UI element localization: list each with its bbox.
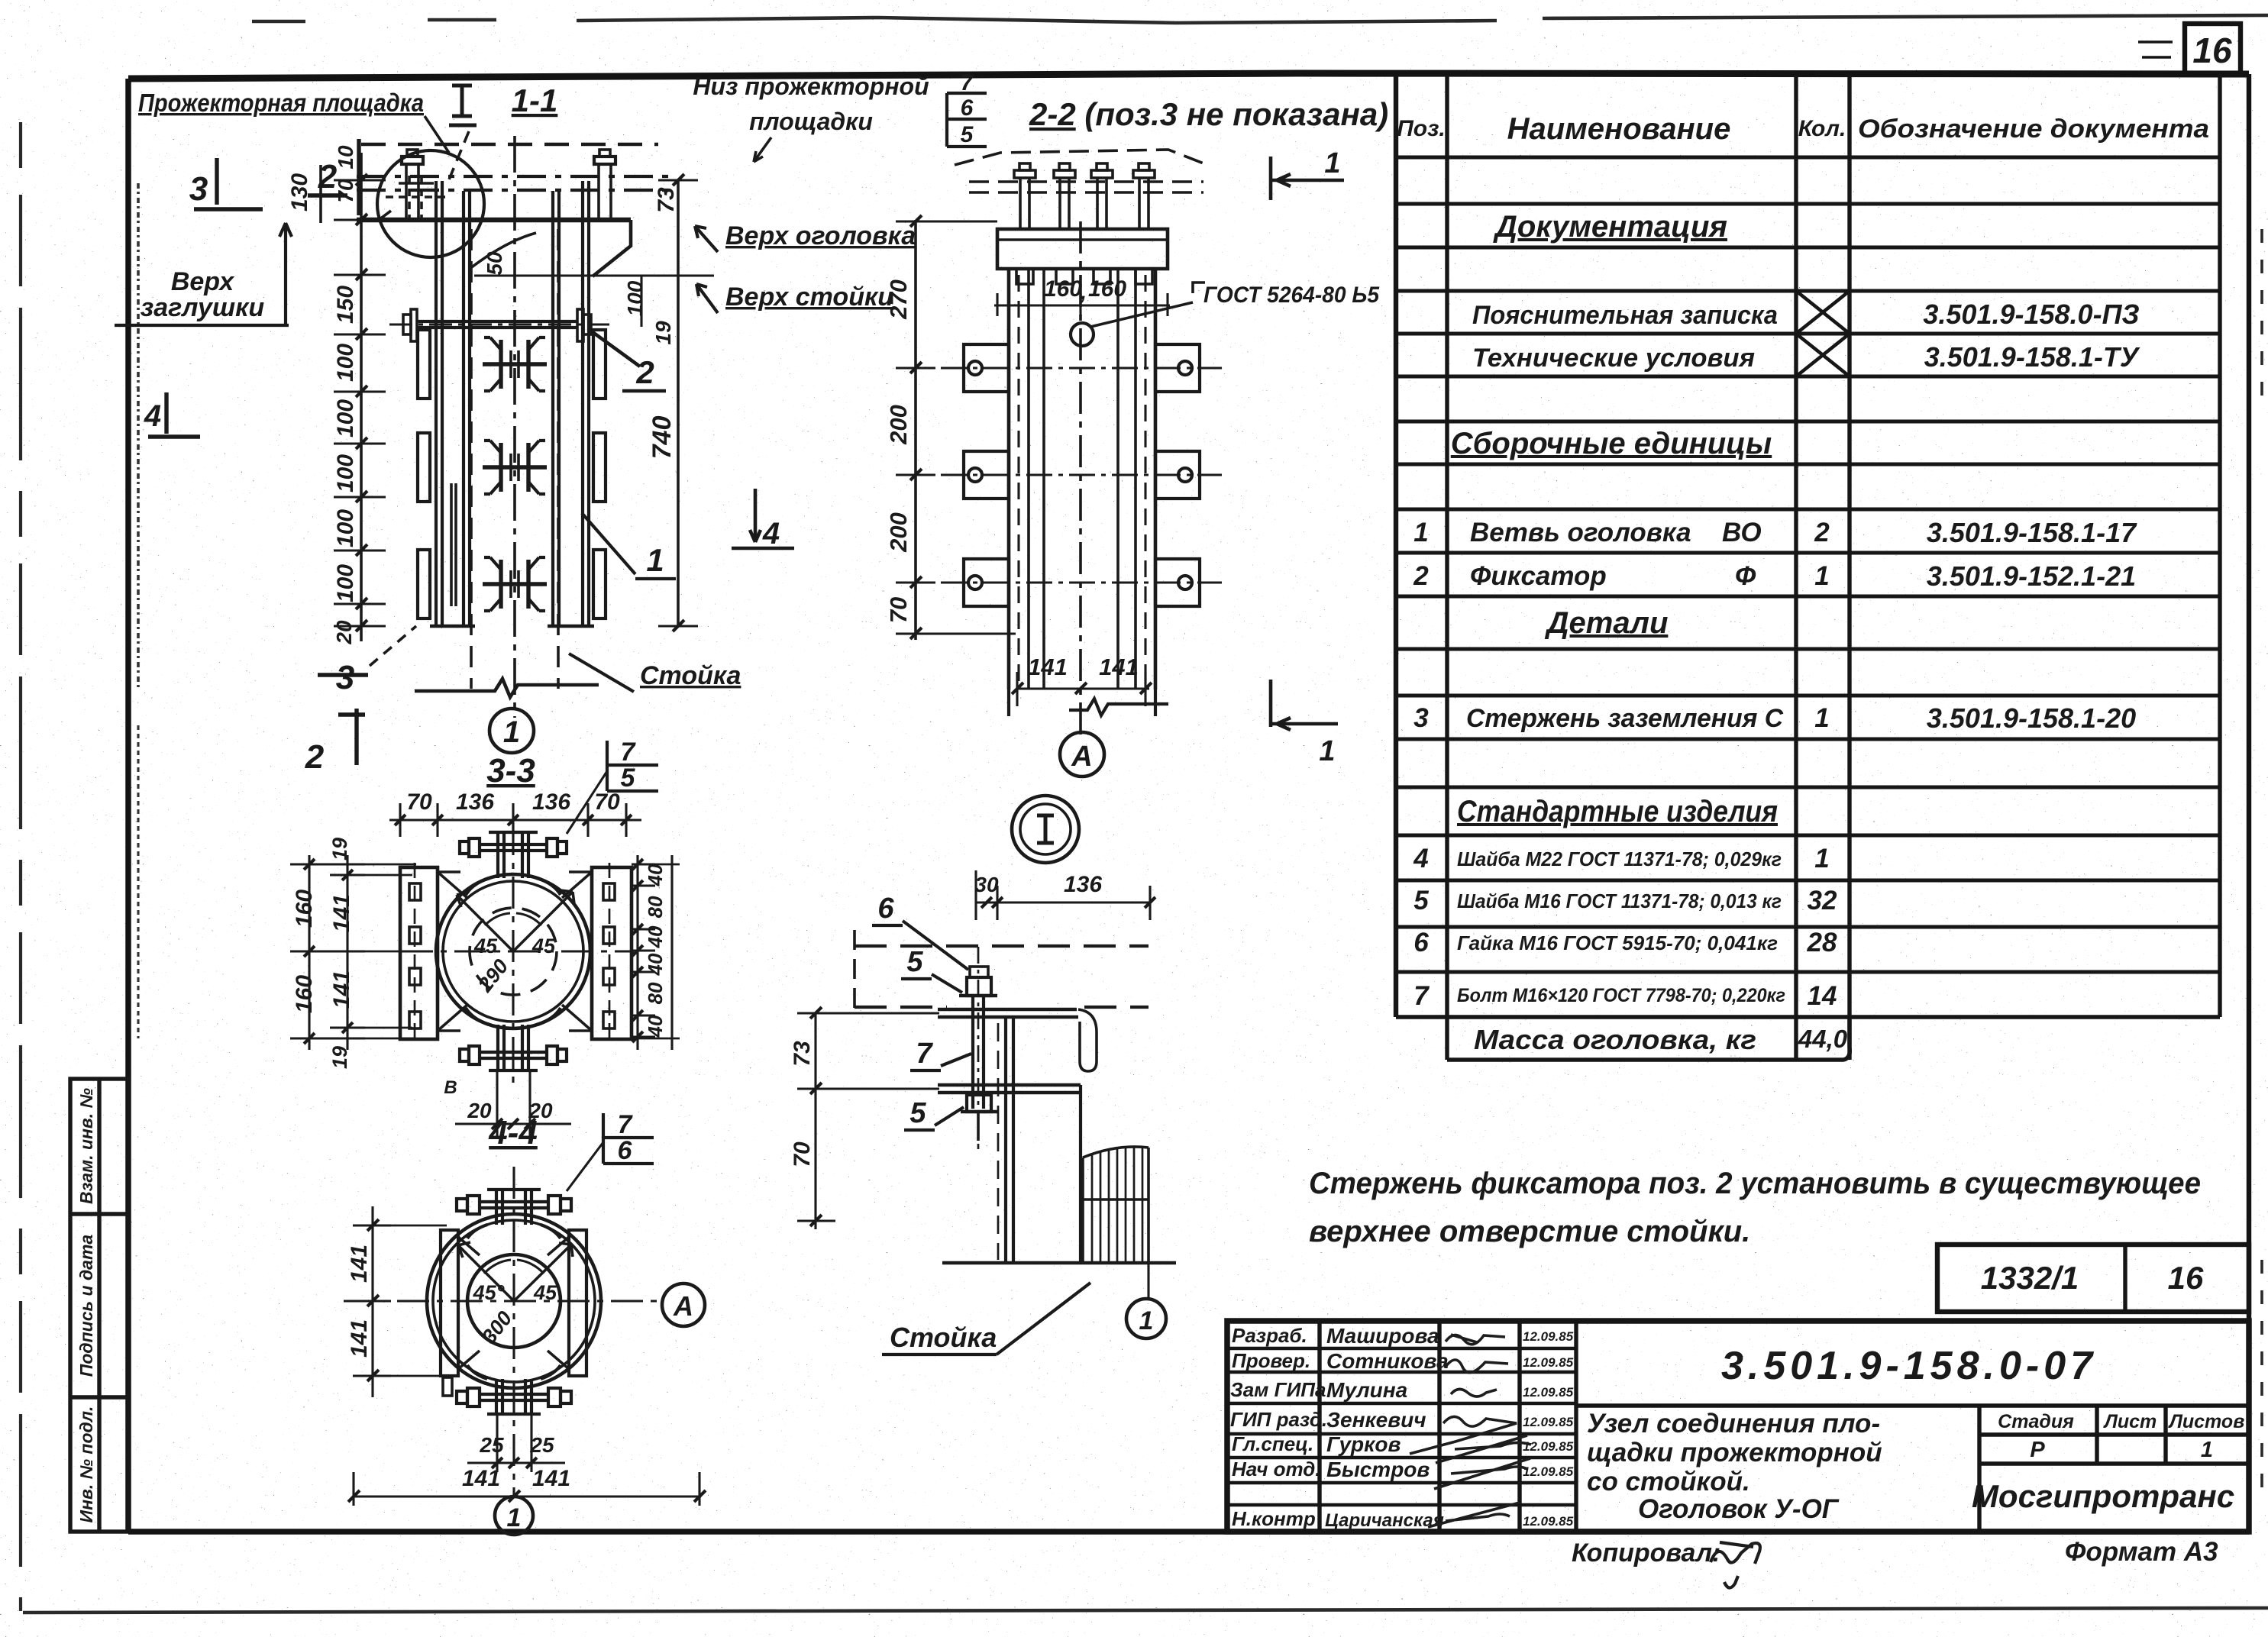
svg-text:1-1: 1-1	[512, 82, 558, 118]
svg-text:Гл.спец.: Гл.спец.	[1232, 1432, 1313, 1455]
svg-text:20: 20	[467, 1099, 492, 1122]
svg-text:16: 16	[2168, 1260, 2204, 1296]
svg-text:Лист: Лист	[2103, 1411, 2157, 1432]
svg-text:2-2 (поз.3 не показана): 2-2 (поз.3 не показана)	[1029, 96, 1388, 132]
svg-text:40: 40	[644, 925, 667, 948]
svg-text:Кол.: Кол.	[1798, 116, 1846, 141]
svg-text:заглушки: заглушки	[141, 293, 264, 322]
svg-text:А: А	[673, 1290, 693, 1322]
svg-text:Сотникова: Сотникова	[1326, 1349, 1449, 1373]
svg-text:Нач отд.: Нач отд.	[1232, 1458, 1321, 1480]
svg-text:3: 3	[336, 659, 354, 696]
svg-text:5: 5	[621, 764, 636, 793]
svg-text:Мулина: Мулина	[1326, 1378, 1407, 1402]
svg-text:Обозначение документа: Обозначение документа	[1858, 115, 2209, 144]
svg-text:7: 7	[618, 1110, 634, 1139]
svg-text:6: 6	[877, 893, 894, 925]
svg-text:Документация: Документация	[1493, 210, 1727, 244]
svg-text:2: 2	[305, 738, 325, 776]
svg-text:6: 6	[618, 1136, 633, 1165]
svg-text:1: 1	[503, 715, 520, 749]
svg-text:,: ,	[1080, 279, 1087, 305]
svg-text:Прожекторная площадка: Прожекторная площадка	[138, 89, 424, 117]
svg-text:1: 1	[1139, 1306, 1154, 1335]
svg-text:Провер.: Провер.	[1232, 1349, 1310, 1372]
svg-text:14: 14	[1808, 981, 1837, 1011]
svg-text:7: 7	[1413, 981, 1430, 1011]
svg-text:Наименование: Наименование	[1507, 112, 1731, 146]
svg-text:Зам ГИПа: Зам ГИПа	[1230, 1378, 1326, 1401]
svg-text:2: 2	[1413, 561, 1429, 591]
svg-text:73: 73	[790, 1041, 815, 1067]
svg-text:141: 141	[347, 1319, 372, 1358]
svg-text:Стадия: Стадия	[1998, 1411, 2074, 1432]
svg-text:7: 7	[961, 70, 974, 95]
svg-text:40: 40	[644, 864, 667, 886]
svg-text:Поз.: Поз.	[1397, 116, 1446, 141]
svg-text:5: 5	[909, 1097, 926, 1129]
svg-text:70: 70	[594, 789, 620, 815]
svg-text:Детали: Детали	[1545, 606, 1669, 640]
svg-text:141: 141	[532, 1466, 570, 1491]
svg-text:40: 40	[644, 1015, 667, 1038]
svg-text:6: 6	[961, 95, 974, 121]
svg-text:площадки: площадки	[749, 108, 873, 135]
svg-text:Р: Р	[2030, 1438, 2045, 1462]
svg-text:со стойкой.: со стойкой.	[1587, 1467, 1750, 1497]
svg-text:В: В	[444, 1077, 457, 1098]
svg-text:Верх оголовка: Верх оголовка	[725, 221, 916, 250]
svg-text:3: 3	[189, 170, 208, 208]
svg-text:160: 160	[1088, 276, 1126, 302]
svg-text:3.501.9-158.1-20: 3.501.9-158.1-20	[1927, 702, 2136, 734]
svg-text:ВО: ВО	[1722, 518, 1762, 547]
svg-text:ГОСТ 5264-80 Ь5: ГОСТ 5264-80 Ь5	[1203, 283, 1380, 308]
svg-text:7: 7	[916, 1038, 933, 1070]
svg-text:1332/1: 1332/1	[1981, 1260, 2079, 1296]
svg-text:1: 1	[646, 542, 664, 578]
svg-text:200: 200	[885, 405, 912, 445]
svg-text:1: 1	[1814, 561, 1829, 591]
svg-text:45°: 45°	[473, 1281, 505, 1304]
svg-text:4-4: 4-4	[488, 1114, 538, 1151]
svg-text:верхнее отверстие стойки.: верхнее отверстие стойки.	[1309, 1215, 1750, 1248]
svg-text:3.501.9-158.1-17: 3.501.9-158.1-17	[1927, 517, 2137, 548]
svg-text:Шайба М16 ГОСТ 11371-78; 0,013: Шайба М16 ГОСТ 11371-78; 0,013 кг	[1457, 890, 1782, 912]
svg-text:А: А	[1071, 741, 1092, 773]
svg-text:44,0: 44,0	[1798, 1025, 1848, 1053]
svg-text:19: 19	[328, 838, 351, 860]
svg-text:ГИП разд.: ГИП разд.	[1230, 1408, 1327, 1431]
svg-text:Листов: Листов	[2168, 1411, 2245, 1432]
svg-text:1: 1	[1319, 735, 1335, 767]
svg-text:141: 141	[1099, 654, 1139, 680]
svg-text:Оголовок У-ОГ: Оголовок У-ОГ	[1638, 1494, 1840, 1524]
svg-text:100: 100	[333, 564, 358, 602]
svg-text:Сборочные единицы: Сборочные единицы	[1451, 427, 1772, 460]
svg-text:5: 5	[906, 946, 923, 978]
svg-text:160: 160	[292, 975, 317, 1013]
svg-text:270: 270	[885, 279, 912, 320]
svg-text:12.09.85: 12.09.85	[1523, 1415, 1574, 1429]
svg-text:1: 1	[1814, 844, 1829, 873]
svg-text:щадки прожекторной: щадки прожекторной	[1587, 1438, 1882, 1467]
svg-text:Ветвь оголовка: Ветвь оголовка	[1470, 518, 1691, 547]
svg-text:45: 45	[531, 935, 556, 957]
svg-text:160: 160	[1044, 276, 1082, 302]
svg-text:45: 45	[473, 935, 498, 957]
svg-text:100: 100	[333, 344, 358, 382]
svg-text:1: 1	[2201, 1438, 2213, 1462]
svg-text:30: 30	[974, 873, 999, 896]
svg-text:Н.контр: Н.контр	[1232, 1507, 1316, 1530]
svg-text:Болт М16×120 ГОСТ 7798-70; 0,2: Болт М16×120 ГОСТ 7798-70; 0,220кг	[1457, 985, 1785, 1006]
svg-text:70: 70	[790, 1141, 815, 1167]
svg-text:Ф: Ф	[1735, 561, 1756, 591]
svg-text:70: 70	[334, 179, 357, 203]
svg-text:2: 2	[635, 354, 654, 390]
svg-text:Гурков: Гурков	[1326, 1432, 1401, 1456]
svg-text:Узел соединения пло-: Узел соединения пло-	[1587, 1409, 1880, 1438]
svg-text:80: 80	[644, 896, 667, 918]
svg-text:1: 1	[1324, 147, 1340, 179]
svg-text:3-3: 3-3	[486, 752, 535, 789]
svg-text:100: 100	[333, 454, 358, 492]
svg-text:Стержень заземления С: Стержень заземления С	[1466, 704, 1783, 733]
svg-text:Мосгипротранс: Мосгипротранс	[1972, 1478, 2234, 1514]
svg-text:Зенкевич: Зенкевич	[1326, 1408, 1426, 1432]
svg-text:136: 136	[532, 789, 570, 815]
svg-text:136: 136	[1064, 872, 1102, 897]
svg-text:Быстров: Быстров	[1326, 1458, 1430, 1481]
svg-text:4: 4	[762, 517, 780, 551]
svg-text:141: 141	[329, 970, 354, 1009]
svg-text:136: 136	[456, 789, 494, 815]
svg-text:150: 150	[333, 286, 358, 324]
svg-text:Взам. инв. №: Взам. инв. №	[76, 1088, 96, 1204]
svg-text:80: 80	[644, 982, 667, 1004]
svg-text:Копировал:: Копировал:	[1572, 1539, 1720, 1568]
svg-text:Технические условия: Технические условия	[1472, 344, 1755, 373]
svg-text:3.501.9-152.1-21: 3.501.9-152.1-21	[1927, 560, 2136, 592]
svg-text:100: 100	[333, 399, 358, 438]
svg-text:Маширова: Маширова	[1326, 1324, 1439, 1348]
svg-text:141: 141	[347, 1245, 372, 1283]
svg-text:160: 160	[292, 890, 317, 928]
svg-text:32: 32	[1808, 886, 1837, 915]
svg-text:3.501.9-158.1-ТУ: 3.501.9-158.1-ТУ	[1924, 341, 2140, 373]
svg-text:1: 1	[1413, 518, 1428, 547]
svg-text:740: 740	[648, 416, 677, 460]
svg-text:Масса оголовка, кг: Масса оголовка, кг	[1474, 1024, 1756, 1055]
svg-text:5: 5	[1413, 886, 1429, 915]
svg-text:25: 25	[479, 1433, 504, 1457]
svg-text:Стойка: Стойка	[640, 661, 741, 690]
svg-text:Шайба М22 ГОСТ 11371-78; 0,029: Шайба М22 ГОСТ 11371-78; 0,029кг	[1457, 848, 1782, 870]
svg-text:12.09.85: 12.09.85	[1523, 1355, 1574, 1370]
svg-text:6: 6	[1413, 928, 1429, 957]
svg-text:50: 50	[483, 251, 506, 276]
svg-text:Инв. № подл.: Инв. № подл.	[76, 1406, 96, 1523]
svg-text:12.09.85: 12.09.85	[1523, 1329, 1574, 1344]
svg-text:Подпись и дата: Подпись и дата	[76, 1235, 96, 1377]
svg-text:4: 4	[1413, 844, 1428, 873]
svg-text:1: 1	[507, 1503, 522, 1532]
svg-text:Разраб.: Разраб.	[1232, 1324, 1307, 1347]
svg-text:73: 73	[654, 187, 679, 213]
svg-text:2: 2	[1814, 518, 1830, 547]
svg-text:Фиксатор: Фиксатор	[1470, 561, 1607, 591]
svg-text:28: 28	[1807, 928, 1837, 957]
svg-text:1: 1	[1814, 703, 1829, 733]
svg-text:200: 200	[885, 512, 912, 553]
svg-text:20: 20	[332, 620, 356, 645]
svg-text:7: 7	[621, 738, 637, 767]
svg-text:130: 130	[287, 173, 312, 211]
svg-text:4: 4	[144, 399, 161, 433]
svg-text:3: 3	[1413, 703, 1429, 733]
svg-text:Стержень фиксатора поз. 2 ус: Стержень фиксатора поз. 2 установить в с…	[1309, 1167, 2201, 1200]
svg-text:25: 25	[529, 1433, 554, 1457]
svg-text:19: 19	[651, 321, 675, 345]
svg-text:16: 16	[2192, 31, 2232, 70]
svg-text:5: 5	[961, 122, 974, 147]
svg-text:12.09.85: 12.09.85	[1523, 1514, 1574, 1529]
svg-text:3.501.9-158.0-ПЗ: 3.501.9-158.0-ПЗ	[1923, 299, 2139, 330]
svg-text:45: 45	[533, 1281, 557, 1304]
svg-text:70: 70	[406, 789, 432, 815]
svg-text:Стандартные изделия: Стандартные изделия	[1457, 795, 1778, 828]
svg-text:40: 40	[644, 953, 667, 976]
svg-text:Пояснительная записка: Пояснительная записка	[1472, 301, 1778, 330]
svg-text:10: 10	[334, 145, 357, 170]
svg-text:70: 70	[885, 597, 912, 623]
svg-text:12.09.85: 12.09.85	[1523, 1439, 1574, 1454]
svg-text:Формат А3: Формат А3	[2065, 1537, 2218, 1567]
svg-text:141: 141	[1028, 654, 1068, 680]
svg-text:141: 141	[329, 894, 354, 932]
svg-text:Царичанская: Царичанская	[1325, 1510, 1444, 1531]
svg-text:Верх стойки: Верх стойки	[725, 283, 893, 312]
svg-text:100: 100	[333, 509, 358, 547]
svg-text:3.501.9-158.0-07: 3.501.9-158.0-07	[1721, 1344, 2097, 1388]
svg-text:100: 100	[623, 280, 647, 316]
svg-text:12.09.85: 12.09.85	[1523, 1464, 1574, 1479]
svg-text:Гайка М16 ГОСТ 5915-70; 0,041к: Гайка М16 ГОСТ 5915-70; 0,041кг	[1457, 932, 1778, 954]
svg-text:Низ прожекторной: Низ прожекторной	[693, 73, 929, 100]
svg-text:12.09.85: 12.09.85	[1523, 1385, 1574, 1400]
svg-text:141: 141	[462, 1466, 500, 1491]
svg-text:19: 19	[328, 1046, 351, 1069]
svg-text:Стойка: Стойка	[890, 1322, 997, 1353]
svg-text:Верх: Верх	[171, 267, 235, 296]
